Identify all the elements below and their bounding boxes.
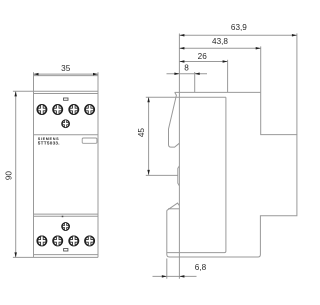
- extension line x=227.6 for 26 dim: [227, 60, 229, 93]
- center screw top A1: [62, 120, 69, 128]
- bottom marker small rect: [64, 249, 68, 252]
- svg-text:5TT5033.: 5TT5033.: [38, 141, 60, 146]
- dim line 8 with tails: [167, 73, 208, 75]
- arrowhead 6.8 left outside: [162, 275, 167, 278]
- middle seam tick: [62, 216, 64, 218]
- screw terminal T3: [69, 105, 78, 115]
- arrowhead 35 right: [93, 73, 98, 76]
- front view outer rect left side: [33, 72, 35, 257]
- extension line x=260.7 for 43.8 dim: [260, 46, 262, 92]
- svg-text:63,9: 63,9: [231, 23, 247, 32]
- arrowhead 26 left: [179, 60, 184, 63]
- screw terminal B2: [53, 236, 62, 246]
- arrowhead 43.8 left: [179, 47, 184, 50]
- dim line 43.8: [179, 47, 260, 49]
- arrowhead 43.8 right: [256, 47, 261, 50]
- side view clip flag diagonal: [167, 203, 180, 210]
- screw terminal T4: [85, 105, 94, 115]
- label window rect: [82, 138, 97, 143]
- front view top seam line 2: [34, 93, 99, 95]
- arrowhead 8 left outside: [174, 73, 179, 76]
- extension line x=296.9 for 63.9 dim: [296, 33, 298, 134]
- svg-text:35: 35: [61, 64, 71, 73]
- dim line 26: [179, 61, 227, 63]
- screw terminal T1: [37, 105, 46, 115]
- arrowhead 8 right outside: [195, 73, 200, 76]
- arrowhead 45 top: [147, 97, 150, 102]
- front view top edge: [34, 75, 99, 77]
- front view middle seam line 1: [34, 213, 99, 215]
- svg-text:26: 26: [198, 52, 208, 61]
- front view outer rect right side: [97, 72, 99, 257]
- arrowhead 35 left: [34, 73, 39, 76]
- side view front tab: [178, 166, 180, 186]
- center screw bottom A2: [62, 223, 69, 231]
- arrowhead 45 bottom: [147, 170, 150, 175]
- front view bottom edge + 90-dim extension: [13, 256, 98, 258]
- screw terminal B1: [37, 236, 46, 246]
- svg-text:43,8: 43,8: [212, 37, 228, 46]
- side view top edge: [175, 91, 261, 93]
- dim line 63.9: [179, 34, 297, 36]
- arrowhead 90 bottom: [14, 252, 17, 257]
- extension line x=194.7 for 8 dim: [194, 72, 196, 92]
- side view inner top line + 45-dim extension: [146, 96, 226, 98]
- top marker small rect: [64, 98, 69, 100]
- dim line 35: [34, 73, 99, 75]
- arrowhead 26 right: [223, 60, 228, 63]
- side view inner back and inner bottom line: [167, 97, 226, 252]
- side view front face line + dim extensions: [178, 34, 180, 279]
- arrowhead 6.8 right outside: [179, 275, 184, 278]
- dim line 90 vertical: [15, 91, 17, 257]
- screw terminal B4: [85, 236, 94, 246]
- front view middle seam line 2: [34, 215, 99, 217]
- arrowhead 90 top: [14, 91, 17, 96]
- dim line 45 vertical: [148, 97, 150, 175]
- svg-text:6,8: 6,8: [195, 263, 207, 272]
- screw terminal B3: [69, 236, 78, 246]
- front view top seam line 1 + 90-dim extension: [13, 90, 98, 92]
- front view label seam line: [34, 134, 99, 136]
- side view clip flag bottom: [168, 208, 179, 210]
- front view inner bottom line: [34, 254, 99, 256]
- svg-text:8: 8: [184, 64, 189, 73]
- arrowhead 63.9 right: [292, 34, 297, 37]
- extension line x=166.8 for 6.8 dim: [166, 259, 168, 279]
- side view top-left chamfer and release lever outline: [169, 92, 180, 147]
- svg-text:45: 45: [137, 128, 146, 138]
- screw terminal T2: [53, 105, 62, 115]
- extension line y=175.4 for 45 dim: [146, 174, 178, 176]
- dim line 6.8 with tails: [153, 275, 197, 277]
- side view bottom cover front + bottom edge + rail step outline: [167, 92, 297, 257]
- arrowhead 63.9 left: [179, 34, 184, 37]
- svg-text:90: 90: [5, 171, 14, 181]
